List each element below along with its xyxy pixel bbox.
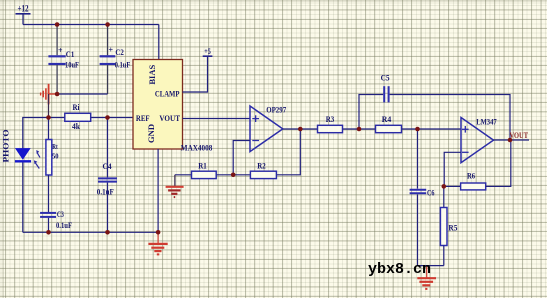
wire cap ground rail <box>57 93 108 95</box>
resistor R1 <box>192 162 217 179</box>
wire BIAS drop <box>158 25 160 60</box>
svg-text:Ri: Ri <box>73 103 81 112</box>
wire LM347 minus input <box>444 152 461 186</box>
junction VOUT node <box>508 138 513 143</box>
wire +12 rail <box>23 24 159 26</box>
wire opamp minus input <box>233 141 250 175</box>
wire bottom rail <box>23 231 158 233</box>
junction C2 / +12 rail <box>105 22 110 27</box>
svg-text:CLAMP: CLAMP <box>155 89 180 99</box>
wire LM347 output <box>494 139 530 141</box>
svg-text:0.1uF: 0.1uF <box>56 221 72 230</box>
svg-text:OP297: OP297 <box>266 105 286 114</box>
junction C4 / bottom rail <box>105 230 110 235</box>
svg-text:C4: C4 <box>103 162 112 171</box>
svg-text:REF: REF <box>136 113 150 123</box>
wire Rt bottom <box>48 175 50 212</box>
resistor R3 <box>318 115 343 133</box>
svg-text:Rt: Rt <box>52 142 58 151</box>
capacitor C6 <box>410 188 435 265</box>
svg-text:0.1uF: 0.1uF <box>97 187 114 196</box>
resistor Rt <box>46 140 59 176</box>
wire main output line <box>283 128 461 130</box>
svg-text:50: 50 <box>52 151 59 160</box>
svg-text:ybx8.cn: ybx8.cn <box>368 261 431 278</box>
wire C5 to output <box>390 95 510 141</box>
svg-text:+: + <box>109 46 114 55</box>
capacitor C2 <box>100 25 131 95</box>
ground (red earth under chip) <box>148 232 167 254</box>
wire photodiode anode <box>22 118 24 149</box>
junction Rt / REF rail <box>46 115 51 120</box>
junction R3-R4 / C5 loop <box>357 127 362 132</box>
svg-text:PHOTO: PHOTO <box>0 129 10 162</box>
svg-text:BIAS: BIAS <box>147 64 157 84</box>
svg-text:R4: R4 <box>382 115 392 124</box>
svg-text:+5: +5 <box>204 46 211 56</box>
svg-text:C3: C3 <box>57 210 64 219</box>
ground (red, left-pointing) <box>41 84 58 105</box>
svg-text:C5: C5 <box>381 74 390 83</box>
svg-text:GND: GND <box>146 124 156 143</box>
junction C1 / +12 rail <box>55 22 60 27</box>
wire CLAMP to +5 <box>183 56 208 92</box>
junction C1 / ground rail <box>55 92 60 97</box>
svg-text:C2: C2 <box>115 48 124 57</box>
svg-text:+: + <box>58 46 63 55</box>
wire C5 loop <box>359 95 383 130</box>
svg-text:+12: +12 <box>18 4 29 14</box>
wire ground to photo rail <box>48 94 50 118</box>
power +12 <box>16 4 31 25</box>
wire R5 bottom rail <box>418 265 444 267</box>
ground (red earth left of R1) <box>166 175 184 197</box>
op-amp U2 OP297 <box>250 105 286 151</box>
svg-text:10uF: 10uF <box>65 61 79 70</box>
capacitor C1 <box>48 25 79 95</box>
wire C4 top <box>107 118 109 178</box>
wire VOUT to opamp <box>183 118 251 120</box>
svg-text:MAX4008: MAX4008 <box>181 143 213 153</box>
svg-text:4k: 4k <box>72 122 81 131</box>
power +5 <box>203 46 213 56</box>
svg-text:R6: R6 <box>467 171 475 180</box>
capacitor C5 <box>381 74 390 103</box>
svg-text:R2: R2 <box>257 162 266 171</box>
wire GND pin drop <box>157 149 159 232</box>
resistor R4 <box>376 115 402 133</box>
svg-text:R1: R1 <box>198 162 207 171</box>
wire C6 drop <box>417 129 419 189</box>
IC U1 MAX4008 <box>133 60 212 153</box>
capacitor C3 <box>40 210 72 233</box>
svg-text:R5: R5 <box>448 223 457 232</box>
resistor R2 <box>250 162 276 179</box>
junction R4 / C6 branch <box>415 127 420 132</box>
junction OP297 output / R2 feedback <box>298 127 303 132</box>
svg-text:VOUT: VOUT <box>159 113 180 123</box>
wire REF rail <box>22 117 133 119</box>
photodiode D1 <box>15 149 40 169</box>
resistor R5 <box>440 186 457 265</box>
capacitor C4 <box>97 162 117 232</box>
junction R5-R6 / LM347 inverting input <box>442 184 447 189</box>
svg-text:VOUT: VOUT <box>510 131 529 140</box>
svg-text:0.1uF: 0.1uF <box>115 61 131 70</box>
resistor R6 <box>444 140 511 190</box>
junction C4 / REF rail <box>105 115 110 120</box>
svg-text:C1: C1 <box>66 50 75 59</box>
resistor Ri <box>65 103 91 131</box>
node junction R1-R2 <box>231 173 236 178</box>
wire Rt top <box>48 118 50 140</box>
svg-text:R3: R3 <box>326 115 335 124</box>
svg-text:C6: C6 <box>427 188 435 197</box>
wire feedback drop <box>175 129 300 175</box>
svg-text:LM347: LM347 <box>476 118 497 127</box>
wire photodiode cathode <box>22 162 24 232</box>
junction C3 / bottom rail <box>46 230 51 235</box>
ground (red earth bottom right) <box>417 266 436 289</box>
op-amp U3 LM347 <box>461 118 497 163</box>
junction GND pin / bottom rail <box>156 230 161 235</box>
